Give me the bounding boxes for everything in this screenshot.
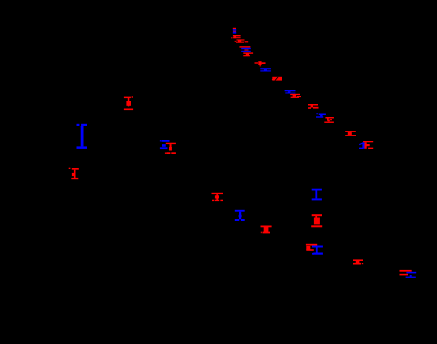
atom O10 label	[345, 131, 356, 136]
carbonyl O14 vertical	[69, 168, 79, 180]
terminal O20/N11 horizontal bars (bottom right)	[400, 270, 417, 278]
amide cluster N1/O4	[239, 46, 253, 56]
terminal amide N5/O11 cluster	[359, 141, 373, 149]
amide O18/N10 cluster	[306, 244, 323, 255]
atom N2 label with double bond	[260, 68, 271, 71]
carbonyl O16 vertical	[261, 226, 272, 234]
atom N3 label	[285, 90, 296, 94]
atom N4 label	[316, 113, 326, 117]
amine N8 vertical	[235, 210, 245, 221]
atom O7 label	[290, 94, 301, 98]
atom O2 label with bonds	[231, 35, 241, 38]
atom O6 label	[272, 77, 282, 81]
nitro group O/N stack top of chain	[233, 28, 236, 34]
carbonyl O12 vertical (left ring area)	[124, 96, 133, 110]
amide N7 with carbonyl O13	[160, 140, 176, 154]
carbonyl O17 vertical (right)	[311, 214, 322, 227]
atom O8 label	[308, 104, 319, 109]
atom O5 ether label	[255, 61, 266, 66]
atom O3 label with bonds	[235, 39, 249, 42]
nitrile N6 tall blue bond	[77, 124, 88, 149]
nitrile N9 tall blue bond (right)	[312, 189, 322, 201]
atom O19 ether label	[353, 259, 363, 264]
atom O9 label	[324, 117, 334, 123]
carbonyl O15 vertical (center)	[212, 193, 224, 201]
